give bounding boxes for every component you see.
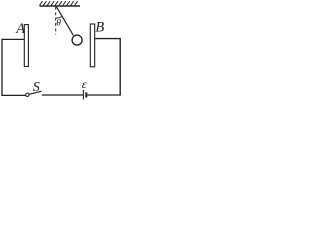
svg-text:ε: ε [82,77,87,91]
svg-text:S: S [33,80,40,95]
svg-text:B: B [95,20,104,36]
svg-text:A: A [15,21,25,37]
svg-text:θ: θ [56,17,61,28]
